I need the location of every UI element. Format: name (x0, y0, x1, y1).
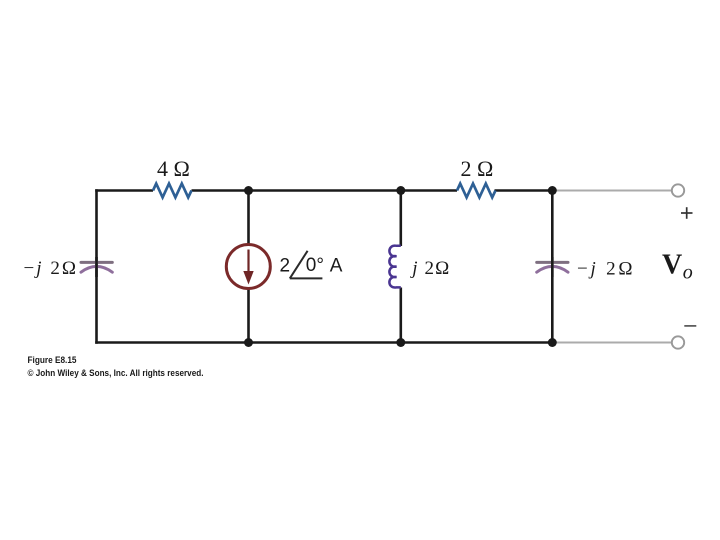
capacitor C2 right -j2 plates (537, 262, 568, 272)
resistor R2 2 Ohm zigzag (457, 184, 496, 198)
node F bottom junction right capacitor (548, 338, 557, 347)
svg-text:Figure E8.15: Figure E8.15 (28, 355, 78, 366)
wire top horizontal left segment (95, 189, 153, 190)
resistor R1 4 Ohm zigzag (153, 184, 192, 198)
wire bottom horizontal (95, 341, 552, 344)
wire top horizontal middle segment (192, 189, 458, 192)
wire crossing over right capacitor (551, 257, 554, 277)
wire left vertical branch (95, 189, 98, 344)
svg-text:j 2Ω: j 2Ω (409, 258, 449, 279)
svg-text:4 Ω: 4 Ω (157, 156, 190, 181)
svg-text:V: V (662, 249, 682, 280)
current source I1 arrow (243, 250, 253, 285)
svg-text:A: A (330, 255, 343, 276)
current source I1 label 2 angle 0 A (280, 251, 343, 279)
svg-text:2 Ω: 2 Ω (461, 156, 494, 181)
svg-text:© John Wiley & Sons, Inc. All: © John Wiley & Sons, Inc. All rights res… (28, 368, 204, 379)
wire grey top lead to terminal (552, 190, 671, 192)
wire inductor branch vertical bottom (399, 288, 402, 343)
svg-text:−j 2Ω: −j 2Ω (577, 259, 633, 280)
current source I1 circle (226, 245, 270, 289)
wire inductor branch vertical top (399, 191, 402, 247)
node B top junction inductor (396, 186, 405, 195)
wire top horizontal right segment (495, 189, 553, 192)
node A top junction current source (244, 186, 253, 195)
wire grey bottom lead to terminal (552, 342, 671, 344)
wire crossing over left capacitor (95, 257, 98, 277)
polarity plus sign (681, 207, 693, 219)
svg-text:−j 2Ω: −j 2Ω (24, 258, 77, 279)
capacitor C1 left -j2 plates (81, 262, 112, 272)
svg-text:o: o (683, 262, 693, 284)
inductor L1 coil (389, 246, 400, 288)
node D bottom junction current source (244, 338, 253, 347)
node C top junction right capacitor (548, 186, 557, 195)
polarity minus sign (684, 325, 696, 327)
terminal top output (672, 184, 684, 196)
terminal bottom output (672, 336, 684, 348)
wire right capacitor branch vertical (551, 191, 554, 343)
wire current source branch vertical (247, 191, 250, 343)
svg-text:2: 2 (280, 255, 291, 276)
node E bottom junction inductor (396, 338, 405, 347)
svg-text:0°: 0° (306, 255, 324, 276)
